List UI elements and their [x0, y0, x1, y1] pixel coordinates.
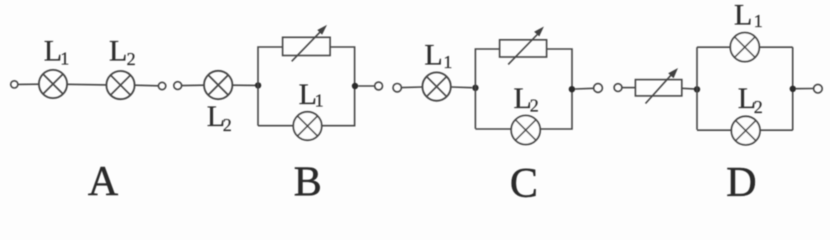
wire [622, 87, 636, 89]
wire [67, 83, 106, 86]
wire [358, 85, 374, 87]
junction node C left [472, 85, 478, 91]
wire (left vertical D) [696, 47, 698, 130]
label L1 (A) [44, 34, 69, 68]
wire (bottom branch C) [475, 89, 572, 129]
wire [18, 83, 39, 85]
wire [402, 86, 423, 89]
terminal C left [393, 84, 401, 92]
svg-text:L: L [734, 0, 752, 31]
wire [682, 87, 694, 90]
lamp L1 (D top) [730, 33, 759, 62]
junction node D right [790, 86, 796, 92]
wire (left vertical C) [475, 49, 499, 129]
junction node B left [255, 82, 261, 88]
rheostat (D) [635, 68, 681, 104]
junction node B right [352, 83, 358, 89]
label L1 (D) [734, 0, 763, 31]
terminal B right [375, 82, 383, 90]
svg-text:2: 2 [530, 95, 539, 115]
label L1 (B) [299, 78, 324, 111]
wire [330, 47, 355, 86]
wire [232, 84, 258, 86]
terminal B left [174, 82, 182, 90]
lamp L1 (A) [39, 70, 67, 98]
junction node D left [694, 86, 700, 92]
label L2 (D) [738, 82, 763, 117]
wire [182, 84, 204, 86]
terminal A left [11, 81, 18, 88]
svg-text:2: 2 [754, 97, 763, 117]
terminal D right [814, 84, 823, 93]
svg-text:1: 1 [443, 52, 452, 72]
wire [451, 86, 472, 89]
lamp L2 (A) [106, 71, 134, 99]
svg-text:L: L [424, 38, 442, 71]
lamp L2 (B) [204, 71, 232, 99]
svg-text:D: D [726, 160, 756, 200]
wire (left vertical B) [258, 47, 283, 126]
svg-text:1: 1 [315, 91, 324, 111]
terminal D left [614, 84, 622, 92]
label L1 (C) [424, 38, 452, 72]
label L2 (B) [207, 100, 232, 135]
wire [796, 88, 813, 90]
svg-text:A: A [88, 159, 119, 200]
wire (bottom branch D) [697, 129, 793, 131]
svg-text:1: 1 [60, 48, 69, 68]
rheostat (B) [283, 25, 331, 61]
wire [135, 84, 159, 87]
wire (bottom branch B) [258, 86, 355, 126]
svg-text:L: L [109, 35, 127, 68]
rheostat (C) [500, 27, 547, 65]
wire (top branch D) [697, 46, 793, 48]
terminal A right [158, 82, 165, 89]
junction node C right [569, 86, 575, 92]
label L2 (C) [514, 82, 539, 116]
svg-text:2: 2 [127, 49, 136, 69]
svg-text:B: B [294, 160, 322, 201]
svg-text:1: 1 [754, 11, 763, 31]
svg-text:2: 2 [223, 115, 232, 135]
svg-text:C: C [510, 161, 538, 200]
wire (right vertical D) [792, 47, 794, 130]
wire [547, 49, 572, 89]
wire [575, 87, 594, 90]
lamp L2 (C bottom) [511, 116, 540, 145]
lamp L1 (B bottom) [293, 112, 321, 140]
label L2 (A) [109, 35, 136, 69]
lamp L1 (C) [422, 72, 450, 100]
lamp L2 (D bottom) [731, 116, 760, 145]
terminal C right [594, 84, 603, 93]
